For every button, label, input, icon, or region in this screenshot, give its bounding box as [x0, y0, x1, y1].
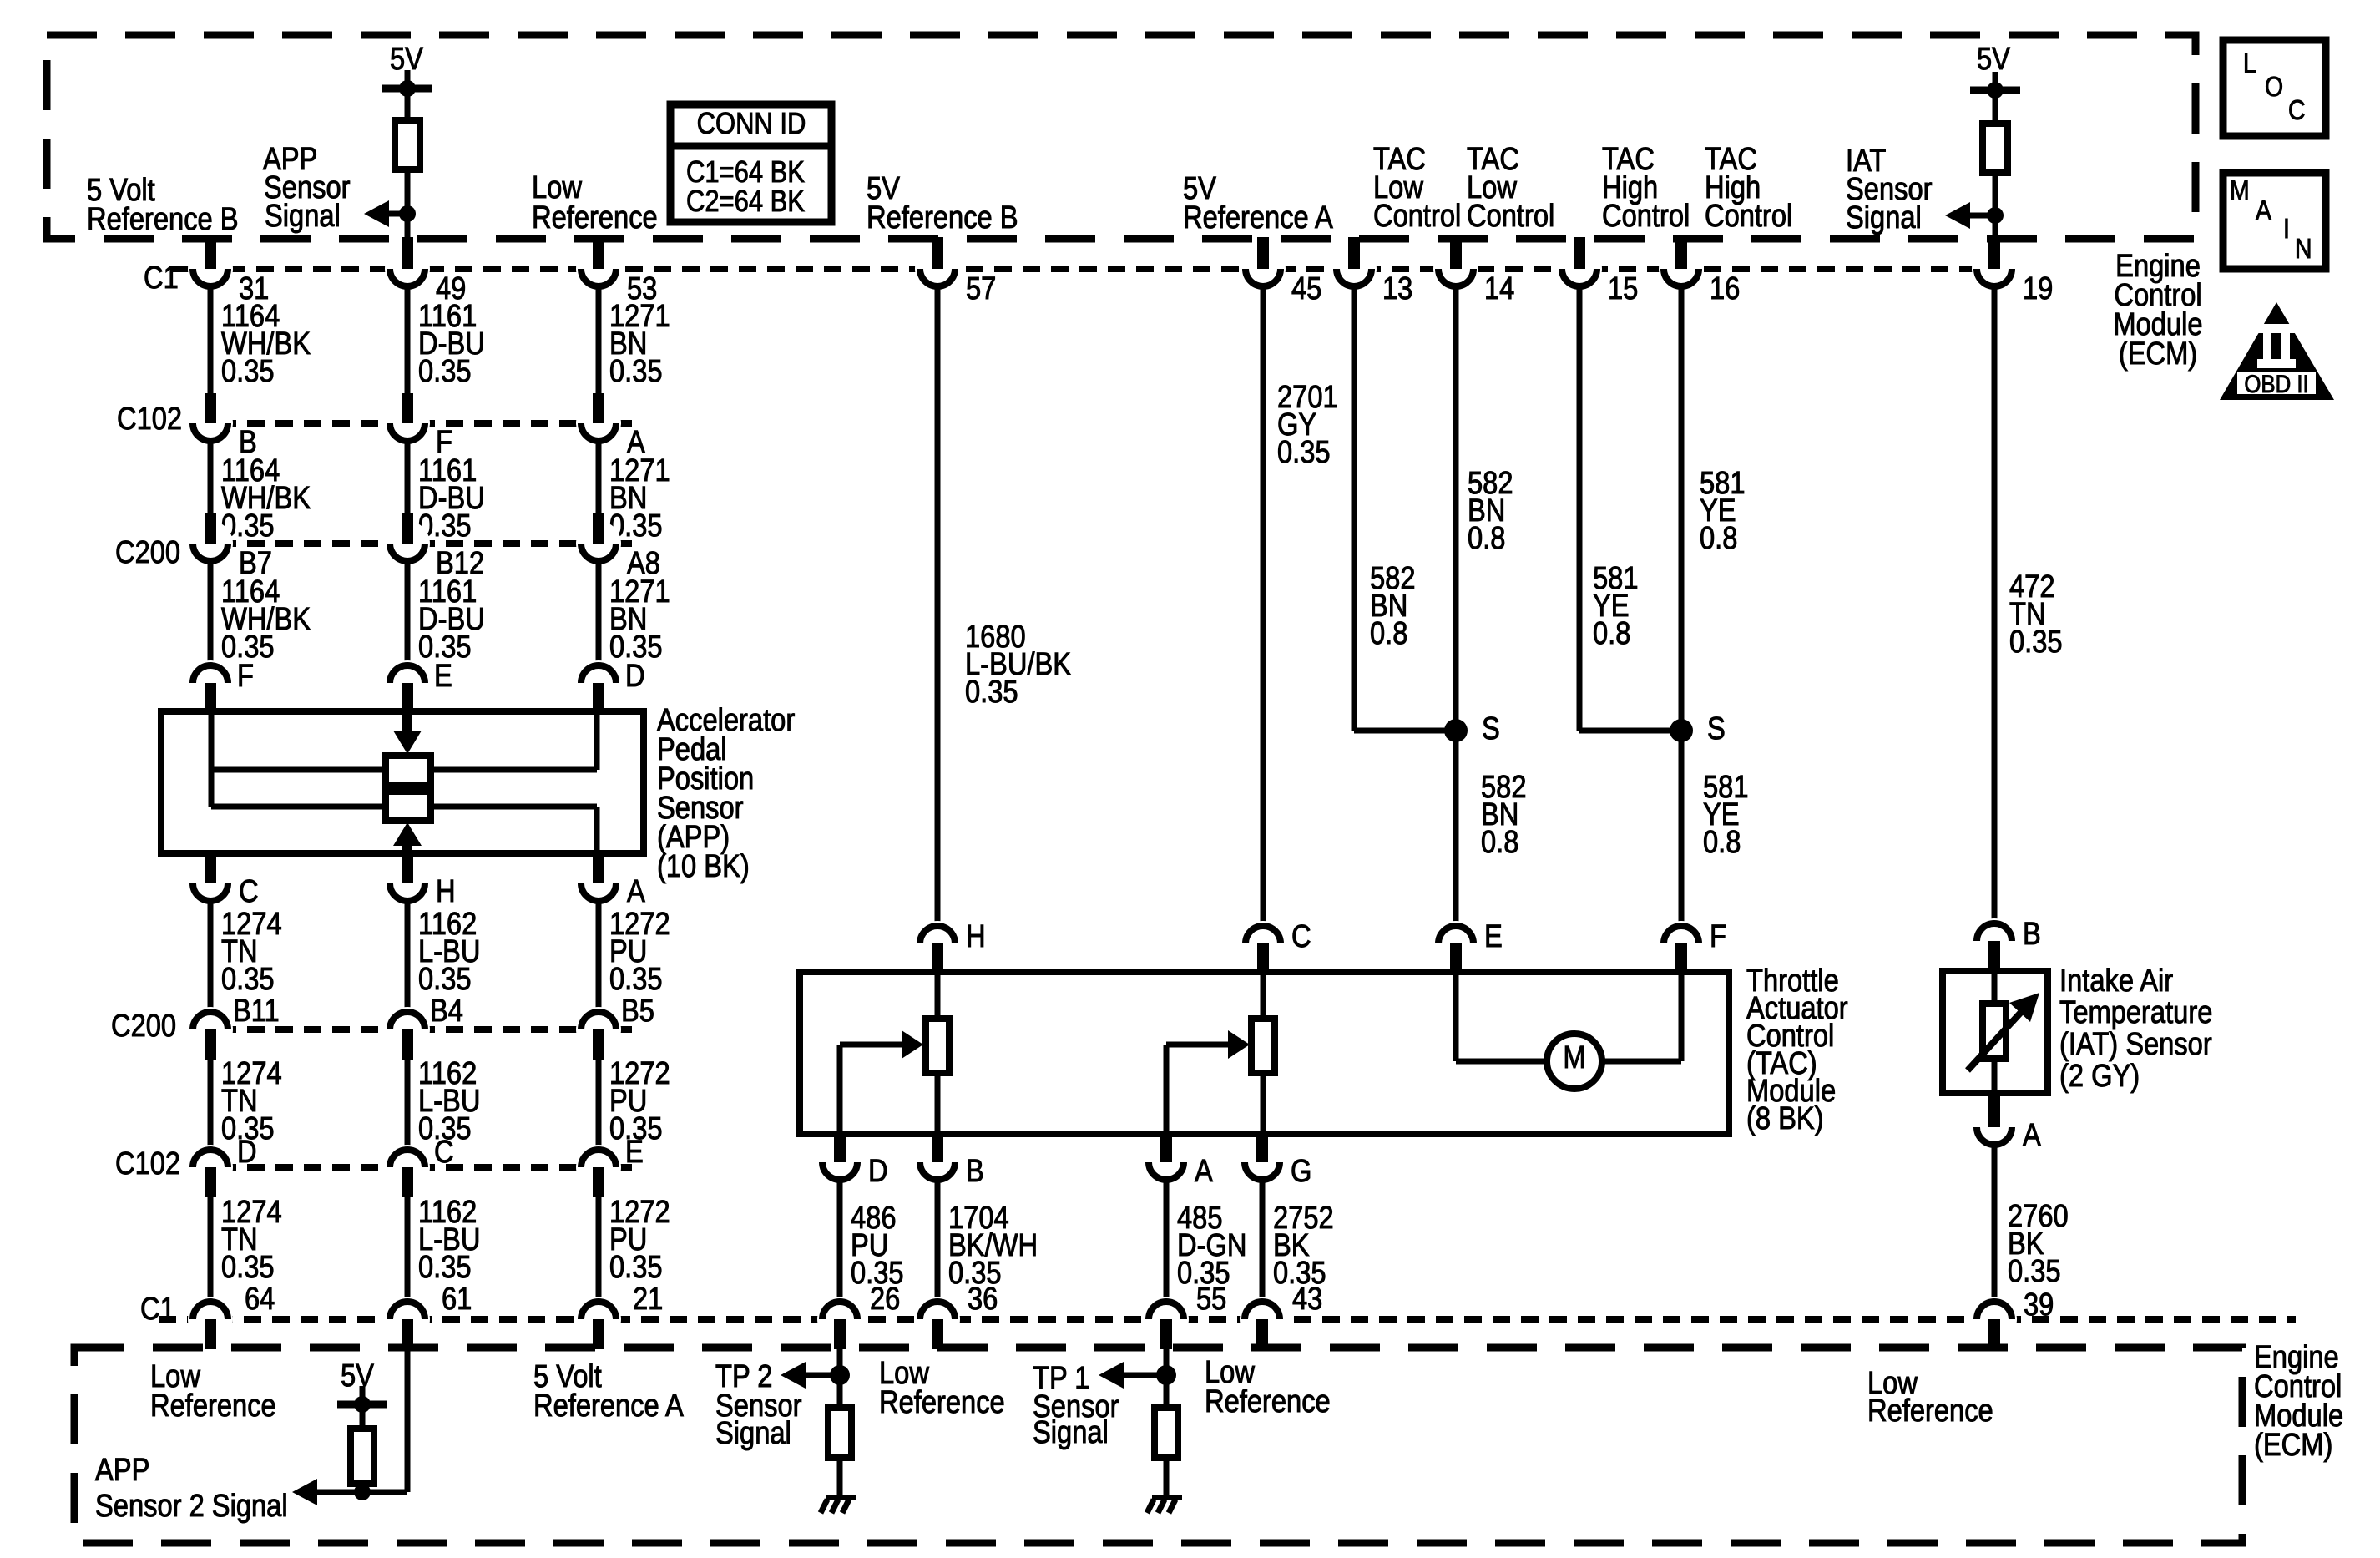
connector C200 lower row dotted line — [190, 1026, 632, 1033]
wire down to C102 lower row — [208, 1060, 214, 1147]
pin B12 connector C200 — [385, 521, 430, 566]
svg-text:0.8: 0.8 — [1700, 520, 1737, 556]
pin F APP sensor — [188, 660, 233, 706]
svg-text:M: M — [2230, 175, 2250, 206]
svg-text:C: C — [434, 1134, 454, 1170]
ground TP2 — [826, 1495, 856, 1500]
node TP2 junction — [830, 1365, 850, 1385]
pin 45 connector C1 row — [1241, 246, 1286, 291]
pin H APP sensor bottom — [385, 861, 430, 906]
svg-text:0.35: 0.35 — [1277, 434, 1331, 470]
connector C1 row dotted line — [171, 266, 2016, 272]
wire 581 YE from pin 15 — [1577, 289, 1583, 731]
resistor APP sensor 2 pull-up — [351, 1429, 374, 1484]
svg-text:E: E — [434, 658, 452, 694]
svg-text:0.35: 0.35 — [965, 674, 1018, 710]
svg-text:Reference B: Reference B — [867, 200, 1018, 235]
resistor IAT signal pull-up — [1983, 124, 2008, 173]
pin E TAC module — [1433, 921, 1478, 966]
Intake Air Temperature (IAT) Sensor box — [1943, 971, 2048, 1093]
svg-text:16: 16 — [1710, 271, 1740, 306]
svg-text:36: 36 — [968, 1281, 998, 1317]
arrow APP Sensor Signal — [389, 211, 407, 217]
wire 2701 GY C1-45 to TAC-C — [1261, 289, 1266, 923]
APP internal left common wire — [209, 711, 215, 807]
pin connector C200 lower — [188, 1007, 233, 1052]
pin 19 connector C1 row — [1972, 246, 2017, 291]
svg-text:0.8: 0.8 — [1703, 824, 1741, 860]
wire down to C200 lower row — [208, 903, 214, 1009]
svg-text:L: L — [2243, 48, 2256, 79]
TAC potentiometer 1 (TP1) element — [926, 1019, 949, 1073]
pin D APP sensor — [576, 660, 621, 706]
svg-text:13: 13 — [1382, 271, 1412, 306]
pin B connector C102 — [188, 401, 233, 446]
wire 581 YE from pin 16 — [1679, 289, 1685, 923]
svg-text:APP: APP — [95, 1452, 149, 1488]
pin F TAC module — [1659, 921, 1704, 966]
svg-text:0.35: 0.35 — [609, 961, 663, 997]
wire pin 55 to TP1 resistor — [1164, 1349, 1170, 1408]
wire down to C1 bottom row — [405, 1197, 411, 1299]
svg-text:0.35: 0.35 — [2008, 1253, 2061, 1289]
svg-text:14: 14 — [1484, 271, 1514, 306]
TAC motor circuit wires — [1453, 972, 1459, 1061]
svg-text:Signal: Signal — [1846, 200, 1922, 235]
pin A TAC module bottom — [1144, 1140, 1189, 1185]
svg-text:0.35: 0.35 — [418, 961, 472, 997]
svg-text:Temperature: Temperature — [2059, 994, 2212, 1030]
resistor APP signal pull-up — [395, 120, 420, 169]
pin connector C1 bottom — [188, 1297, 233, 1342]
svg-text:CONN ID: CONN ID — [697, 108, 806, 141]
svg-text:Signal: Signal — [265, 198, 341, 234]
APP potentiometer 2 element — [386, 792, 431, 821]
node APP Sensor Signal junction — [399, 205, 416, 222]
pin connector C2 bottom — [817, 1297, 862, 1342]
TAC potentiometer 2 (TP2) element — [1251, 1019, 1275, 1073]
node APP Sensor 2 Signal junction — [354, 1484, 371, 1500]
svg-text:Signal: Signal — [1033, 1414, 1109, 1450]
svg-text:D: D — [868, 1153, 888, 1189]
wire down to C102 lower row — [405, 1060, 411, 1147]
svg-text:45: 45 — [1291, 271, 1321, 306]
TAC pot 2 wiper feed from pin A — [1164, 1045, 1170, 1134]
svg-text:55: 55 — [1196, 1281, 1226, 1317]
svg-text:(IAT) Sensor: (IAT) Sensor — [2059, 1026, 2212, 1062]
wire pin 61 to APP Sensor 2 Signal arrow — [405, 1349, 411, 1492]
IAT thermistor wires — [1992, 971, 1998, 1004]
svg-text:Control: Control — [1705, 198, 1792, 234]
svg-text:0.8: 0.8 — [1593, 615, 1630, 651]
wire pin 26 to TP2 resistor — [837, 1349, 843, 1408]
svg-text:H: H — [966, 918, 986, 954]
svg-text:C: C — [1291, 918, 1311, 954]
arrow IAT Sensor Signal — [1970, 213, 1995, 219]
pin A IAT sensor bottom — [1972, 1105, 2017, 1150]
pin C TAC module — [1241, 921, 1286, 966]
svg-text:5V: 5V — [341, 1358, 374, 1394]
svg-text:0.35: 0.35 — [609, 353, 663, 389]
pin 57 connector C1 row — [915, 246, 960, 291]
pin connector C102 lower — [188, 1145, 233, 1190]
svg-text:0.8: 0.8 — [1468, 520, 1505, 556]
svg-text:Reference: Reference — [532, 200, 658, 235]
wire 582 BN from pin 13 — [1352, 289, 1357, 731]
svg-text:0.8: 0.8 — [1370, 615, 1407, 651]
node TP1 junction — [1156, 1365, 1176, 1385]
svg-text:A: A — [2023, 1117, 2041, 1153]
TAC pot 1 wiper feed from pin D — [837, 1045, 843, 1134]
svg-text:(10 BK): (10 BK) — [657, 848, 750, 884]
svg-text:E: E — [1484, 918, 1503, 954]
pin connector C1 bottom — [576, 1297, 621, 1342]
pin connector C102 lower — [385, 1145, 430, 1190]
wire TAC pin A down to bottom connector — [1164, 1182, 1170, 1299]
pin F connector C102 — [385, 401, 430, 446]
Throttle Actuator Control (TAC) Module box — [800, 972, 1729, 1134]
svg-text:0.35: 0.35 — [221, 353, 275, 389]
node IAT Sensor Signal junction — [1987, 207, 2004, 224]
wire down to APP pin F — [208, 564, 214, 663]
wire down to C102 pin B — [208, 289, 214, 393]
node S splice 582 — [1444, 719, 1468, 742]
svg-text:(ECM): (ECM) — [2119, 336, 2197, 372]
APP pot 1 top rail wire — [211, 767, 386, 773]
wire resistor to junction — [405, 169, 411, 240]
svg-text:Sensor 2 Signal: Sensor 2 Signal — [95, 1488, 288, 1524]
svg-text:B4: B4 — [430, 993, 463, 1029]
svg-text:Intake Air: Intake Air — [2059, 963, 2173, 999]
svg-text:15: 15 — [1608, 271, 1638, 306]
wire TAC pin G down to bottom connector — [1260, 1182, 1266, 1299]
svg-text:0.35: 0.35 — [221, 961, 275, 997]
wire resistor to junction — [1993, 173, 1998, 240]
wire 582 BN from pin 14 — [1453, 289, 1459, 923]
wire down to C102 lower row — [596, 1060, 602, 1147]
connector C200 row dotted line — [190, 540, 632, 547]
svg-text:H: H — [436, 873, 456, 909]
APP potentiometer 1 element — [386, 756, 431, 785]
pin B TAC module bottom — [915, 1140, 960, 1185]
arrow TP 1 Sensor Signal — [1099, 1362, 1124, 1389]
svg-text:A: A — [1195, 1153, 1213, 1189]
svg-text:(ECM): (ECM) — [2254, 1427, 2332, 1463]
svg-text:26: 26 — [870, 1281, 900, 1317]
svg-text:(2 GY): (2 GY) — [2059, 1058, 2140, 1094]
pin C APP sensor bottom — [188, 861, 233, 906]
svg-text:57: 57 — [966, 271, 996, 306]
svg-text:64: 64 — [245, 1281, 275, 1317]
pin B IAT sensor — [1972, 918, 2017, 964]
pin E APP sensor — [385, 660, 430, 706]
pin connector C200 lower — [385, 1007, 430, 1052]
APP pin A internal wire — [594, 807, 600, 853]
motor M — [1547, 1034, 1602, 1089]
wire TAC pin B down to bottom connector — [935, 1182, 941, 1299]
ground TP1 — [1152, 1495, 1182, 1500]
pin 16 connector C1 row — [1659, 246, 1704, 291]
wire down to C200 pin A8 — [596, 443, 602, 513]
svg-text:19: 19 — [2023, 271, 2053, 306]
svg-text:5V: 5V — [1977, 41, 2010, 77]
pin D TAC module bottom — [817, 1140, 862, 1185]
svg-text:A: A — [2256, 195, 2271, 226]
APP pot 2 wiper arrow from pin H — [402, 843, 412, 853]
svg-text:0.35: 0.35 — [418, 353, 472, 389]
Engine Control Module (ECM) top dashed box — [47, 35, 2196, 239]
svg-text:C1=64 BK: C1=64 BK — [686, 156, 806, 190]
wire down to C102 pin A — [596, 289, 602, 393]
svg-text:C200: C200 — [111, 1008, 176, 1044]
APP pot 2 bottom rail wire — [211, 804, 386, 810]
wire 2760 BK IAT-A to ECM-39 labels — [1992, 1147, 1998, 1299]
MAIN reference box — [2223, 173, 2326, 269]
wire down to C200 lower row — [405, 903, 411, 1009]
arrow TP 2 Sensor Signal — [781, 1362, 806, 1389]
svg-text:0.8: 0.8 — [1481, 824, 1518, 860]
pin H TAC module — [915, 921, 960, 966]
svg-text:C102: C102 — [117, 401, 182, 437]
pin connector C200 lower — [576, 1007, 621, 1052]
svg-text:C102: C102 — [115, 1146, 180, 1181]
Engine Control Module (ECM) bottom dashed box — [74, 1348, 2242, 1543]
resistor TP1 pull-down — [1155, 1408, 1178, 1458]
svg-text:F: F — [237, 658, 254, 694]
connector C102 lower row dotted line — [190, 1164, 632, 1171]
svg-text:(8 BK): (8 BK) — [1746, 1100, 1824, 1136]
svg-text:Reference B: Reference B — [87, 201, 239, 237]
svg-text:Reference A: Reference A — [533, 1388, 684, 1424]
svg-text:Control: Control — [1602, 198, 1690, 234]
svg-text:A: A — [627, 873, 645, 909]
pin A8 connector C200 — [576, 521, 621, 566]
pin 14 connector C1 row — [1433, 246, 1478, 291]
svg-text:G: G — [1291, 1153, 1311, 1189]
svg-text:Reference: Reference — [150, 1388, 276, 1424]
svg-text:N: N — [2295, 233, 2312, 265]
pin 49 connector C1 row — [385, 246, 430, 291]
pin 53 connector C1 row — [576, 246, 621, 291]
IAT thermistor element — [1983, 1004, 2006, 1059]
Accelerator Pedal Position Sensor (APP) box — [161, 711, 644, 853]
svg-text:C: C — [239, 873, 259, 909]
svg-text:O: O — [2265, 71, 2283, 103]
LOC reference box — [2223, 40, 2326, 136]
APP pot 1 wiper arrow from pin E — [402, 711, 412, 733]
svg-text:0.35: 0.35 — [2009, 624, 2063, 660]
pin connector C1 bottom — [385, 1297, 430, 1342]
svg-text:Reference: Reference — [1205, 1383, 1331, 1419]
svg-text:F: F — [1710, 918, 1726, 954]
wire 1680 L-BU/BK C1-57 to TAC-H — [935, 289, 941, 923]
TAC pot 1 wire H to B — [935, 972, 941, 1019]
wire down to APP pin D — [596, 564, 602, 663]
pin B7 connector C200 — [188, 521, 233, 566]
svg-text:0.35: 0.35 — [221, 1249, 275, 1285]
TAC pot 2 wire C to G — [1261, 972, 1266, 1019]
wire down to C200 pin B7 — [208, 443, 214, 513]
svg-text:D: D — [625, 658, 645, 694]
pin connector C102 lower — [576, 1145, 621, 1190]
connector C102 row dotted line — [190, 420, 632, 427]
arrow APP Sensor 2 Signal — [292, 1479, 317, 1505]
svg-text:B: B — [2023, 916, 2041, 952]
svg-text:C200: C200 — [115, 534, 180, 570]
svg-text:B5: B5 — [621, 993, 654, 1029]
pin A connector C102 — [576, 401, 621, 446]
OBD II triangle symbol — [2220, 302, 2334, 400]
resistor TP2 pull-down — [828, 1408, 851, 1458]
svg-text:61: 61 — [442, 1281, 472, 1317]
svg-text:C1: C1 — [144, 260, 179, 296]
svg-text:0.35: 0.35 — [609, 1249, 663, 1285]
pin connector C2 bottom — [1144, 1297, 1189, 1342]
svg-text:D: D — [237, 1134, 257, 1170]
IAT variable arrow — [1968, 1009, 2024, 1070]
svg-text:S: S — [1482, 711, 1500, 746]
pin 39 connector bottom — [1972, 1297, 2017, 1342]
svg-text:Control: Control — [1467, 198, 1554, 234]
svg-text:0.35: 0.35 — [418, 1249, 472, 1285]
svg-text:E: E — [625, 1134, 644, 1170]
pin 13 connector C1 row — [1331, 246, 1377, 291]
svg-text:C1: C1 — [140, 1291, 175, 1327]
pin connector C2 bottom — [915, 1297, 960, 1342]
svg-text:Reference: Reference — [879, 1384, 1005, 1420]
svg-text:B: B — [966, 1153, 984, 1189]
pin connector C2 bottom — [1240, 1297, 1285, 1342]
wire down to C200 lower row — [596, 903, 602, 1009]
svg-text:OBD II: OBD II — [2244, 370, 2308, 397]
svg-text:B11: B11 — [233, 993, 280, 1029]
svg-text:Control: Control — [1373, 198, 1461, 234]
svg-text:43: 43 — [1292, 1281, 1322, 1317]
svg-text:S: S — [1707, 711, 1726, 746]
svg-text:C2=64 BK: C2=64 BK — [686, 185, 806, 219]
wire TAC pin D down to bottom connector — [837, 1182, 843, 1299]
svg-text:M: M — [1563, 1040, 1585, 1075]
svg-text:I: I — [2283, 213, 2290, 245]
connector C1/C2 bottom row dotted line — [159, 1316, 2296, 1323]
wire 472 TN C1-19 to IAT-B — [1992, 289, 1998, 921]
wire down to C1 bottom row — [596, 1197, 602, 1299]
svg-text:Reference A: Reference A — [1183, 200, 1333, 235]
svg-text:Signal: Signal — [715, 1415, 791, 1451]
CONN ID table — [670, 104, 831, 222]
pin 31 connector C1 row — [188, 246, 233, 291]
svg-text:39: 39 — [2024, 1287, 2054, 1323]
APP pin D internal wire — [594, 711, 600, 770]
wire down to C1 bottom row — [208, 1197, 214, 1299]
pin 15 connector C1 row — [1557, 246, 1602, 291]
svg-text:C: C — [2288, 94, 2305, 126]
pin G TAC module bottom — [1240, 1140, 1285, 1185]
svg-text:21: 21 — [633, 1281, 663, 1317]
wire down to APP pin E — [405, 564, 411, 663]
svg-text:Reference: Reference — [1867, 1393, 1993, 1429]
wire down to C200 pin B12 — [405, 443, 411, 513]
wire down to C102 pin F — [405, 289, 411, 393]
pin A APP sensor bottom — [576, 861, 621, 906]
node S splice 581 — [1670, 719, 1693, 742]
